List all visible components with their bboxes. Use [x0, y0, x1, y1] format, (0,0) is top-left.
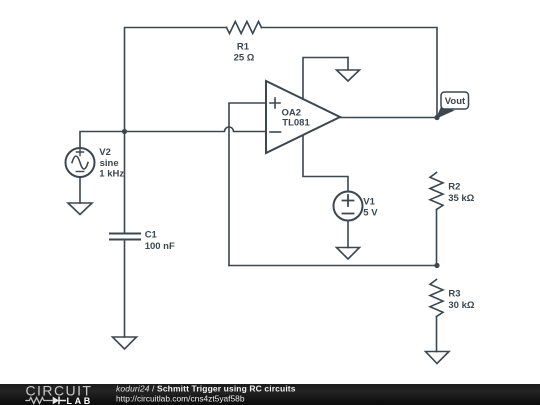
svg-text:C1: C1 — [145, 230, 158, 241]
junction node B — [434, 263, 439, 268]
ground below V1 — [337, 248, 360, 260]
source V2 minus sign — [76, 171, 83, 173]
logo resistor squiggle — [25, 398, 52, 404]
op-amp U1 triangle — [266, 81, 340, 153]
wire R1 right terminal to top-right corner down to output node — [262, 28, 438, 118]
wire bottom feedback to R2/R3 node — [229, 265, 437, 267]
svg-text:LAB: LAB — [67, 396, 93, 405]
op-amp minus input symbol — [270, 131, 281, 133]
wire R3 bottom to ground — [436, 317, 438, 352]
svg-text:koduri24 / Schmitt Trigger usi: koduri24 / Schmitt Trigger using RC circ… — [116, 384, 296, 394]
svg-text:100 nF: 100 nF — [145, 241, 175, 252]
source V2 sine wave — [72, 156, 88, 169]
source V1 plus sign — [343, 195, 354, 206]
junction output node — [434, 115, 439, 120]
op-amp plus input symbol — [270, 98, 280, 108]
svg-text:Vout: Vout — [445, 96, 466, 107]
logo diode symbol — [53, 397, 59, 405]
footer bar — [0, 384, 540, 405]
svg-text:R3: R3 — [448, 289, 460, 300]
svg-text:R1: R1 — [237, 42, 250, 53]
resistor R3 — [430, 280, 443, 317]
resistor R1 — [227, 22, 262, 34]
wire op-amp V+ pin to ground — [303, 58, 348, 100]
svg-text:35 kΩ: 35 kΩ — [448, 193, 474, 204]
source V1 circle — [334, 192, 363, 221]
svg-text:1 kHz: 1 kHz — [99, 169, 124, 180]
ground below V2 — [68, 203, 92, 215]
wire V1 bottom to ground — [347, 221, 349, 248]
svg-text:V1: V1 — [363, 197, 375, 208]
source V2 sine circle — [66, 148, 95, 177]
svg-text:sine: sine — [100, 158, 119, 169]
wire C1 bottom plate down to ground — [124, 241, 126, 338]
wire op-amp V- pin to V1 — [303, 135, 348, 192]
wire op-amp output — [340, 117, 437, 119]
source V1 minus sign — [343, 213, 354, 215]
wire node A down to C1 top plate — [124, 132, 126, 233]
svg-text:TL081: TL081 — [282, 118, 310, 129]
wire node A to op-amp inverting input with hop over vertical wire — [125, 127, 266, 131]
source V2 plus sign — [77, 149, 84, 156]
wire op-amp non-inverting input from left vertical — [229, 103, 266, 266]
svg-text:V2: V2 — [99, 147, 111, 158]
svg-text:R2: R2 — [448, 182, 460, 193]
wire V2 bottom to ground — [79, 177, 81, 203]
ground below C1 — [113, 337, 137, 349]
capacitor C1 — [110, 234, 140, 240]
ground for op-amp V+ — [337, 58, 360, 82]
svg-text:http://circuitlab.com/cns4zt5y: http://circuitlab.com/cns4zt5yaf58b — [116, 394, 245, 404]
svg-text:5 V: 5 V — [363, 208, 378, 219]
resistor R2 — [430, 173, 443, 210]
wire node A up and right to R1 left terminal — [125, 28, 227, 132]
Vout flag pointer — [437, 108, 453, 118]
svg-text:25 Ω: 25 Ω — [234, 52, 255, 63]
Vout flag box — [441, 92, 469, 109]
wire R2 bottom to node B — [436, 210, 438, 266]
junction node A — [122, 129, 127, 134]
wire V2 top to node A — [80, 132, 125, 149]
svg-text:30 kΩ: 30 kΩ — [448, 300, 474, 311]
ground below R3 — [426, 352, 450, 364]
